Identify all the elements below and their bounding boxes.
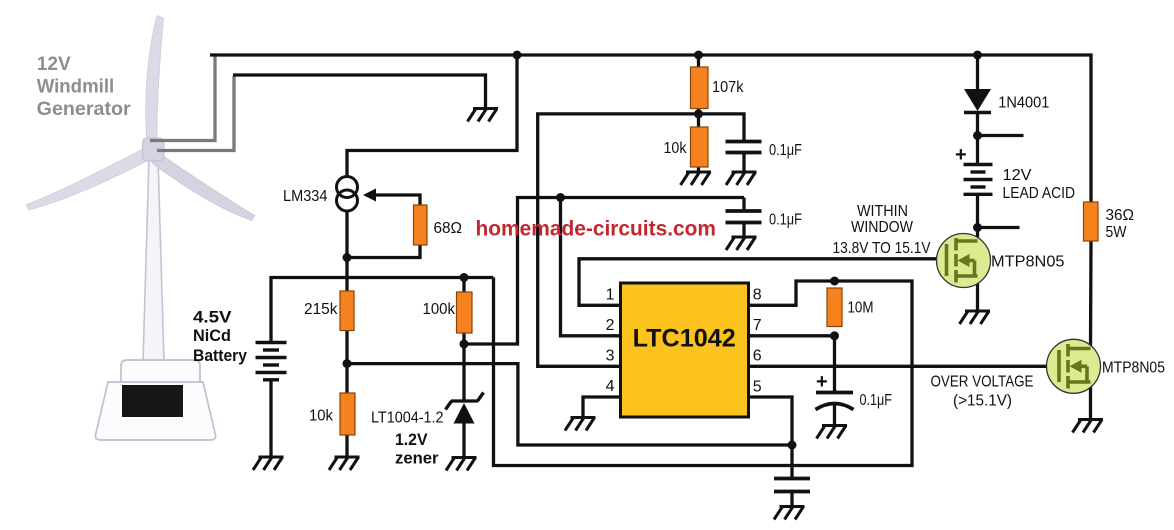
- node: V+ rail / 100k top: [460, 273, 469, 282]
- svg-text:LTC1042: LTC1042: [633, 325, 736, 353]
- svg-text:107k: 107k: [712, 79, 744, 96]
- wire Q2 source to ground: [1089, 382, 1092, 420]
- ground: Q1 source: [960, 311, 991, 324]
- resistor 10M: [827, 288, 842, 327]
- ground: delay cap: [817, 426, 848, 439]
- wire pin1 up and over to Q1 gate: [579, 259, 945, 306]
- ground: 10k upper: [681, 172, 712, 185]
- wire 4.5V battery to ground: [269, 380, 272, 458]
- capacitor 0.1uF delay (polarized, pin7): [816, 393, 854, 410]
- node: 1N4001 cathode / battery plus: [973, 131, 982, 140]
- transistor Q1 MTP8N05 (within-window switch): [937, 234, 991, 288]
- windmill blade lower-right: [152, 152, 255, 221]
- wire ref cap lead: [742, 198, 745, 212]
- svg-text:13.8V TO 15.1V: 13.8V TO 15.1V: [833, 240, 931, 257]
- resistor 36ohm 5W: [1084, 202, 1099, 241]
- windmill tower: [143, 158, 164, 362]
- svg-text:0.1μF: 0.1μF: [860, 392, 893, 409]
- wire 107k junction to top filter cap: [699, 114, 745, 142]
- svg-text:12V: 12V: [1003, 167, 1032, 184]
- label: 12V Windmill Generator: [37, 53, 131, 120]
- windmill illustration (12V windmill generator toy): [27, 16, 255, 441]
- resistor 10k upper: [691, 127, 709, 167]
- label: within window: [833, 203, 931, 257]
- wire 107k bottom lead: [697, 109, 700, 128]
- windmill hub: [143, 138, 165, 161]
- svg-text:WITHIN: WITHIN: [857, 203, 908, 220]
- wire 107k junction rail to pin3: [538, 114, 699, 366]
- wire 100k bottom to zener: [462, 333, 465, 401]
- wire 107k top lead: [697, 55, 700, 67]
- svg-text:10k: 10k: [309, 408, 334, 425]
- windmill blade up: [146, 16, 164, 143]
- node: 107k / 10k / pin3 junction: [694, 109, 703, 118]
- node: LM334 / 68ohm / 215k: [343, 253, 352, 262]
- resistor 10k lower: [340, 393, 355, 435]
- resistor 100k: [457, 292, 473, 333]
- svg-text:LEAD ACID: LEAD ACID: [1003, 185, 1076, 202]
- node: 10M bottom / pin7: [830, 331, 839, 340]
- wire 12V battery plus terminal stub: [978, 134, 1024, 137]
- svg-text:Battery: Battery: [193, 347, 248, 365]
- label: 4.5V NiCd Battery: [193, 309, 248, 366]
- resistor 107k: [691, 67, 709, 109]
- svg-text:WINDOW: WINDOW: [851, 219, 914, 236]
- wire 12V battery bottom lead to Q1 drain: [976, 194, 979, 242]
- svg-text:4: 4: [606, 378, 615, 395]
- node: top rail / LM334 branch: [513, 51, 522, 60]
- windmill base body: [95, 382, 215, 440]
- capacitor 0.1uF sample (pin5): [774, 479, 810, 492]
- ground: ref cap: [726, 237, 757, 250]
- wire ref node: 100k bottom right stub up to ref rail: [464, 198, 744, 345]
- wire delay cap to ground: [833, 403, 836, 426]
- ground: sample cap: [774, 507, 805, 520]
- node: battery minus / Q1 drain: [973, 223, 982, 232]
- wire sample cap to ground: [790, 492, 793, 507]
- svg-text:1: 1: [606, 287, 615, 304]
- svg-text:0.1μF: 0.1μF: [769, 212, 802, 229]
- svg-text:MTP8N05: MTP8N05: [991, 254, 1065, 271]
- svg-text:100k: 100k: [423, 301, 456, 318]
- svg-text:LT1004-1.2: LT1004-1.2: [371, 410, 444, 427]
- resistor 68ohm: [414, 205, 428, 245]
- svg-text:1.2V: 1.2V: [395, 431, 428, 449]
- wire 10M bottom to delay cap: [833, 336, 836, 393]
- wire pin4 to ground: [583, 397, 621, 418]
- svg-text:4.5V: 4.5V: [193, 309, 232, 327]
- svg-text:7: 7: [753, 317, 762, 334]
- ground: pin4: [565, 418, 596, 431]
- LM334 current source symbol: [337, 177, 358, 212]
- wire 68ohm bottom to LM334 node: [347, 245, 420, 258]
- ground: Q2 source: [1073, 420, 1104, 433]
- wire gray output 1 from windmill hub: [150, 56, 215, 141]
- node: top rail / 1N4001: [973, 51, 982, 60]
- node: 10M top / pin8 rail: [830, 277, 839, 286]
- svg-text:OVER VOLTAGE: OVER VOLTAGE: [931, 374, 1034, 391]
- wire ref cap to ground: [742, 223, 745, 238]
- transistor Q2 MTP8N05 (over-voltage switch): [1047, 339, 1101, 393]
- wire zener to ground: [462, 424, 465, 458]
- svg-text:8: 8: [753, 287, 762, 304]
- windmill blade lower-left: [27, 148, 152, 210]
- windmill base pedestal: [121, 360, 200, 383]
- svg-text:0.1μF: 0.1μF: [769, 142, 802, 159]
- ground: windmill return: [468, 109, 499, 122]
- node: 215k / 10k divider tap: [343, 359, 352, 368]
- svg-text:+: +: [816, 371, 828, 393]
- node: top rail / 107k: [694, 51, 703, 60]
- svg-text:5: 5: [753, 379, 762, 396]
- wire ref rail to pin2: [561, 198, 621, 336]
- wire 100k top lead: [462, 278, 465, 293]
- wire 12V battery minus terminal stub: [978, 226, 1020, 229]
- node: pin5 / sample cap: [788, 441, 797, 450]
- svg-text:12V: 12V: [37, 53, 71, 75]
- wire 1N4001 anode lead: [976, 55, 979, 89]
- wire top rail branch to LM334: [347, 55, 517, 177]
- diode 1N4001: [964, 89, 991, 111]
- svg-text:MTP8N05: MTP8N05: [1102, 360, 1165, 377]
- svg-text:10k: 10k: [664, 140, 688, 157]
- wire 1N4001 cathode to 12V battery plus: [976, 113, 979, 136]
- wire 10k top to ground: [697, 167, 700, 172]
- resistor 215k: [340, 291, 354, 331]
- wire pin7 to 10M bottom: [748, 334, 835, 337]
- battery 4.5V NiCd: [256, 343, 287, 380]
- svg-text:LM334: LM334: [283, 188, 328, 205]
- IC U1 LTC1042: [621, 283, 749, 417]
- wire Q1 source to ground: [976, 276, 979, 311]
- wire pin6 to Q2 gate (over voltage line): [748, 365, 1059, 368]
- arrowhead into LM334: [363, 189, 376, 202]
- wire 12V battery top lead: [976, 136, 979, 165]
- svg-text:homemade-circuits.com: homemade-circuits.com: [476, 218, 717, 241]
- svg-text:+: +: [955, 144, 967, 166]
- label: over voltage: [931, 374, 1034, 410]
- battery 12V lead acid: [964, 165, 993, 195]
- svg-text:10M: 10M: [848, 300, 874, 317]
- wire gray output 2 from windmill hub: [157, 76, 234, 151]
- capacitor 0.1uF ref bypass: [726, 211, 762, 223]
- wire 68ohm arrow feed (to LM334 R-set): [366, 195, 420, 205]
- svg-text:5W: 5W: [1106, 224, 1128, 241]
- svg-text:2: 2: [606, 317, 615, 334]
- wire 4.5V battery rail to 100k top: [271, 278, 494, 343]
- svg-text:6: 6: [753, 348, 762, 365]
- wire 36ohm bottom to Q2 drain: [1089, 241, 1093, 349]
- wire top cap to ground: [742, 153, 745, 173]
- svg-text:3: 3: [606, 348, 615, 365]
- svg-text:Windmill: Windmill: [37, 76, 115, 98]
- ground: zener: [446, 458, 477, 471]
- wire 215k to 10k divider: [345, 331, 348, 394]
- node: ref rail / pin2 branch: [556, 193, 565, 202]
- wire divider tap toward pin5: [347, 364, 792, 445]
- ground: top filter cap: [726, 172, 757, 185]
- svg-text:NiCd: NiCd: [193, 327, 231, 345]
- svg-text:215k: 215k: [304, 301, 338, 318]
- capacitor 0.1uF top filter: [726, 142, 762, 153]
- ground: 10k lower: [329, 457, 360, 470]
- svg-text:68Ω: 68Ω: [434, 220, 463, 237]
- svg-text:1N4001: 1N4001: [998, 95, 1049, 112]
- wire top positive rail: [210, 55, 1091, 202]
- wire V+ loop: 100k-top rail down, bottom run, up to pin8 run: [494, 278, 913, 466]
- node: 100k bottom / zener / ref stub: [460, 340, 469, 349]
- wire windmill return to ground: [233, 75, 486, 108]
- svg-text:36Ω: 36Ω: [1106, 207, 1135, 224]
- windmill base solar panel: [122, 385, 183, 417]
- wire LM334 to 215k: [345, 210, 348, 291]
- svg-text:Generator: Generator: [37, 98, 131, 120]
- wire 10k bottom to ground: [345, 435, 348, 457]
- ground: 4.5V battery: [253, 457, 284, 470]
- svg-text:(>15.1V): (>15.1V): [953, 393, 1012, 410]
- wire pin5 down to sample cap node: [748, 397, 792, 478]
- svg-text:zener: zener: [395, 450, 439, 468]
- zener diode LT1004-1.2: [446, 393, 484, 424]
